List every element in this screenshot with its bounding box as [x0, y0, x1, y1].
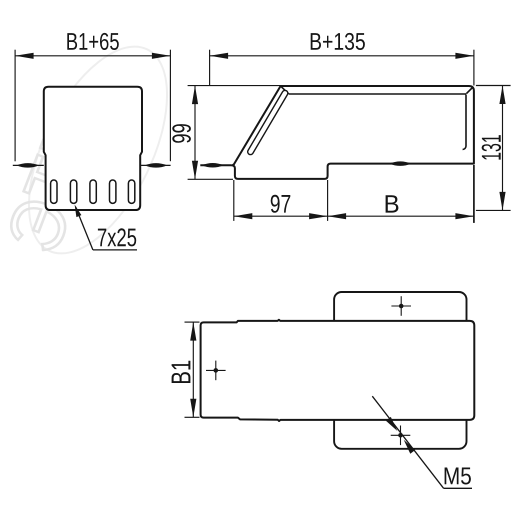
- dimension 131: [476, 86, 511, 211]
- lip hole mark: [202, 163, 224, 168]
- top extension line to peak: [188, 85, 281, 87]
- dimension B1+65: [15, 50, 170, 162]
- side view body outline: [200, 86, 474, 179]
- slot 2: [70, 180, 76, 203]
- watermark ETM: [0, 26, 196, 275]
- dimension B: [328, 165, 474, 223]
- inner right flange hem: [463, 95, 466, 150]
- leader 7x25: [75, 205, 137, 250]
- slot 5: [128, 180, 134, 203]
- front view body outline: [44, 87, 142, 210]
- hole cross bottom: [391, 426, 411, 446]
- right corner chamfer: [466, 88, 472, 94]
- bottom hole mark: [389, 161, 411, 166]
- inner top edge: [289, 93, 466, 95]
- dimension B1: [185, 322, 200, 417]
- hole cross top: [391, 296, 411, 316]
- peak chamfer: [281, 86, 289, 94]
- inclined hem band: [251, 93, 286, 152]
- hole cross left: [206, 361, 226, 381]
- back plate: [334, 292, 466, 449]
- leader M5: [372, 396, 472, 488]
- front waist flange mark right: [140, 163, 170, 168]
- slot 4: [110, 180, 116, 203]
- dimension 99: [188, 86, 233, 180]
- front waist flange mark left: [13, 163, 44, 168]
- slot 1: [51, 180, 57, 203]
- dimension 97: [234, 180, 328, 221]
- slot 3: [90, 180, 96, 203]
- dimension B+135: [210, 50, 474, 86]
- main plate: [201, 320, 475, 421]
